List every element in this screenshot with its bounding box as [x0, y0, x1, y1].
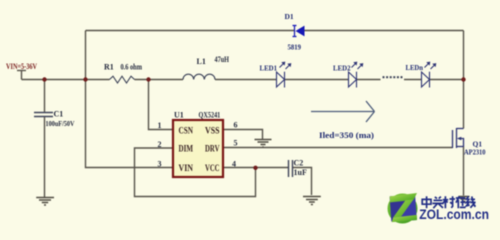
svg-text:CSN: CSN: [179, 125, 194, 135]
svg-text:DIM: DIM: [179, 143, 194, 153]
svg-text:47uH: 47uH: [215, 55, 230, 64]
svg-text:5819: 5819: [288, 43, 302, 52]
svg-text:2: 2: [158, 140, 162, 149]
svg-text:C1: C1: [54, 110, 64, 119]
svg-text:AP2310: AP2310: [464, 148, 486, 157]
svg-text:VSS: VSS: [205, 125, 220, 135]
svg-text:3: 3: [158, 159, 162, 168]
svg-text:0.6 ohm: 0.6 ohm: [121, 63, 143, 72]
svg-text:LEDn: LEDn: [406, 63, 424, 72]
svg-text:LED1: LED1: [260, 64, 278, 73]
svg-text:VIN: VIN: [179, 163, 194, 173]
svg-text:5: 5: [234, 139, 238, 148]
svg-text:1: 1: [158, 121, 162, 130]
svg-text:VIN=5-36V: VIN=5-36V: [6, 62, 37, 71]
svg-text:100uF/50V: 100uF/50V: [46, 119, 75, 128]
svg-text:QX5241: QX5241: [199, 111, 221, 120]
svg-text:4: 4: [232, 159, 236, 168]
svg-text:L1: L1: [197, 57, 206, 66]
svg-text:U1: U1: [174, 111, 184, 120]
svg-text:6: 6: [234, 121, 238, 130]
svg-text:VCC: VCC: [205, 163, 220, 173]
svg-text:ZOL.com.cn: ZOL.com.cn: [419, 207, 489, 222]
svg-text:1uF: 1uF: [294, 168, 307, 177]
svg-text:R1: R1: [104, 63, 114, 72]
svg-text:DRV: DRV: [205, 143, 220, 153]
svg-text:Iled=350 (ma): Iled=350 (ma): [319, 131, 374, 140]
svg-text:LED2: LED2: [333, 64, 351, 73]
svg-text:C2: C2: [294, 159, 304, 168]
svg-text:D1: D1: [285, 12, 294, 21]
